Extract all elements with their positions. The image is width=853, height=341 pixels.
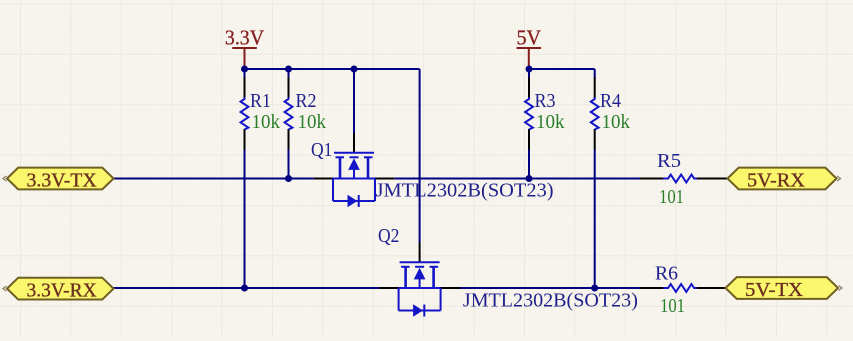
wire rail drop to Q2 gate — [419, 69, 421, 243]
transistor Q2 (N-MOSFET with body diode) — [399, 262, 441, 316]
wire R3 top — [528, 69, 530, 78]
svg-text:3.3V-RX: 3.3V-RX — [27, 280, 97, 302]
svg-text:R5: R5 — [657, 151, 681, 172]
svg-text:10k: 10k — [536, 112, 565, 133]
pin Q2 gate — [419, 243, 421, 263]
svg-text:R1: R1 — [250, 91, 271, 112]
svg-text:R2: R2 — [296, 91, 317, 112]
wire TX middle — [394, 178, 640, 180]
pin Q1 source — [314, 178, 334, 180]
resistor R4 — [591, 77, 599, 149]
svg-text:5V-TX: 5V-TX — [745, 279, 803, 301]
junction RX / R4 — [591, 285, 598, 292]
transistor Q1 (N-MOSFET with body diode) — [333, 153, 375, 207]
resistor R1 — [241, 77, 249, 149]
junction 5V rail / R3 — [526, 66, 533, 73]
wire R1 bottom to RX — [244, 149, 246, 288]
svg-text:3.3V: 3.3V — [225, 26, 264, 50]
svg-text:R3: R3 — [535, 91, 556, 112]
pin Q2 source — [379, 287, 399, 289]
wire R2 top — [288, 69, 290, 78]
junction TX / R3 — [526, 175, 533, 182]
wire R4 top — [594, 69, 596, 78]
svg-text:Q1: Q1 — [311, 140, 332, 161]
wire R3 bottom to TX — [528, 149, 530, 179]
svg-text:5V-RX: 5V-RX — [747, 170, 805, 192]
resistor R2 — [285, 77, 293, 149]
svg-text:101: 101 — [660, 296, 685, 317]
junction TX / R2 — [285, 175, 292, 182]
wire TX left — [114, 178, 314, 180]
power port 5V — [517, 48, 542, 68]
port 3.3V-TX — [3, 168, 114, 192]
svg-text:10k: 10k — [252, 112, 281, 133]
svg-text:JMTL2302B(SOT23): JMTL2302B(SOT23) — [376, 181, 554, 202]
svg-text:5V: 5V — [517, 26, 542, 50]
pin Q1 drain — [375, 178, 395, 180]
wire R4 bottom to RX — [594, 149, 596, 288]
resistor R3 — [525, 77, 533, 149]
wire R1 top — [244, 69, 246, 78]
wire R2 bottom to TX — [288, 149, 290, 179]
svg-text:R4: R4 — [600, 91, 621, 112]
junction 3.3V rail / R2 — [285, 66, 292, 73]
svg-text:Q2: Q2 — [378, 226, 399, 247]
power port 3.3V — [232, 48, 257, 68]
svg-text:10k: 10k — [298, 112, 327, 133]
wire Q1 gate to rail — [353, 69, 355, 133]
junction 3.3V rail / Q1 gate — [351, 66, 358, 73]
wire RX middle — [460, 287, 640, 289]
pin Q1 gate — [353, 133, 355, 153]
junction 3.3V rail / R1 — [241, 66, 248, 73]
pin Q2 drain — [440, 287, 460, 289]
wire RX left — [114, 287, 380, 289]
wire 3.3V rail — [245, 68, 420, 70]
port 3.3V-RX — [3, 278, 114, 302]
port 5V-TX — [726, 277, 843, 301]
svg-text:3.3V-TX: 3.3V-TX — [27, 170, 97, 192]
svg-text:101: 101 — [659, 187, 684, 208]
svg-text:10k: 10k — [602, 112, 631, 133]
wire 5V rail — [529, 68, 595, 70]
svg-text:R6: R6 — [655, 264, 678, 285]
resistor R5 — [640, 175, 728, 183]
junction RX / R1 — [241, 285, 248, 292]
resistor R6 — [640, 284, 727, 292]
port 5V-RX — [728, 168, 841, 192]
svg-text:JMTL2302B(SOT23): JMTL2302B(SOT23) — [463, 291, 638, 312]
